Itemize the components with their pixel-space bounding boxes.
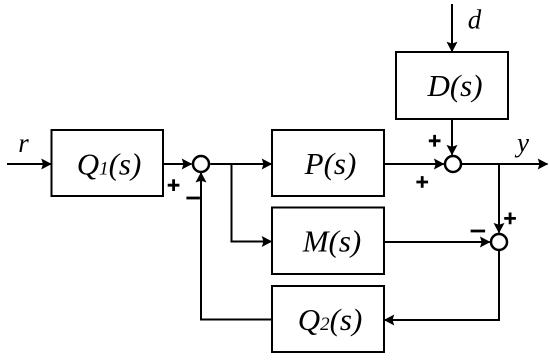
svg-text:Q1(s): Q1(s) (77, 147, 142, 182)
sign plus at D-S2 wire (429, 135, 441, 147)
summing junction S2 (445, 156, 461, 172)
wire d input (451, 4, 453, 52)
wire S3 down and left to Q2 (394, 250, 499, 320)
wire S2 to y output (461, 163, 547, 165)
summing junction S1 (193, 156, 209, 172)
wire Q1 to S1 (163, 163, 192, 165)
sign minus at S3 (471, 230, 486, 233)
svg-text:M(s): M(s) (302, 224, 362, 259)
sign minus at S1 (186, 197, 200, 200)
summing junction S3 (491, 234, 507, 250)
block D (396, 52, 508, 119)
sign plus below P-S2 wire (416, 176, 428, 188)
wire P to S2 (384, 163, 444, 165)
wire Q2 to S1 feedback (201, 183, 272, 320)
svg-text:y: y (514, 128, 529, 158)
svg-text:P(s): P(s) (304, 146, 357, 181)
svg-text:r: r (18, 128, 29, 158)
svg-text:Q2(s): Q2(s) (298, 302, 363, 337)
wire branch down to S3 (498, 164, 500, 233)
svg-text:d: d (468, 5, 482, 35)
sign plus at S3 (504, 213, 516, 225)
block P (272, 130, 384, 196)
wire branch down to M (232, 164, 263, 242)
block Q1 (52, 130, 164, 196)
wire M to S3 (384, 241, 490, 243)
wire r input (7, 163, 51, 165)
wire D to S2 (451, 119, 453, 155)
block M (272, 208, 384, 275)
block Q2 (272, 286, 384, 352)
svg-text:D(s): D(s) (426, 68, 482, 103)
sign plus at S1 (168, 179, 180, 191)
wire S1 to P (210, 163, 271, 165)
